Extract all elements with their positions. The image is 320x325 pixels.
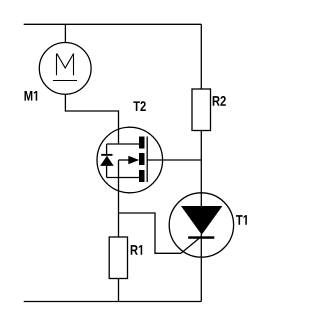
- wire R1 bottom: [118, 279, 120, 302]
- thyristor T1: [169, 193, 233, 257]
- label R2: [213, 96, 226, 106]
- label M1: [25, 91, 38, 101]
- wire T2 source down to R1: [118, 178, 120, 238]
- wire motor top feed: [64, 24, 66, 42]
- label T1: [236, 215, 247, 225]
- wire T2 gate lead: [147, 159, 201, 161]
- resistor R1: [109, 237, 127, 279]
- wire T1 cathode to bottom rail: [200, 234, 202, 302]
- wire R2 to T1 anode: [200, 131, 202, 207]
- label R1: [131, 245, 142, 255]
- motor M1: [39, 43, 91, 95]
- resistor R2: [192, 89, 211, 131]
- wire motor bottom to T2 drain: [65, 94, 118, 144]
- wire top supply rail: [24, 23, 202, 25]
- wire bottom supply rail: [24, 301, 202, 303]
- transistor T2: [97, 127, 163, 193]
- wire R2 top feed: [200, 24, 202, 89]
- wire T1 gate branch: [119, 213, 182, 253]
- label T2: [133, 101, 146, 111]
